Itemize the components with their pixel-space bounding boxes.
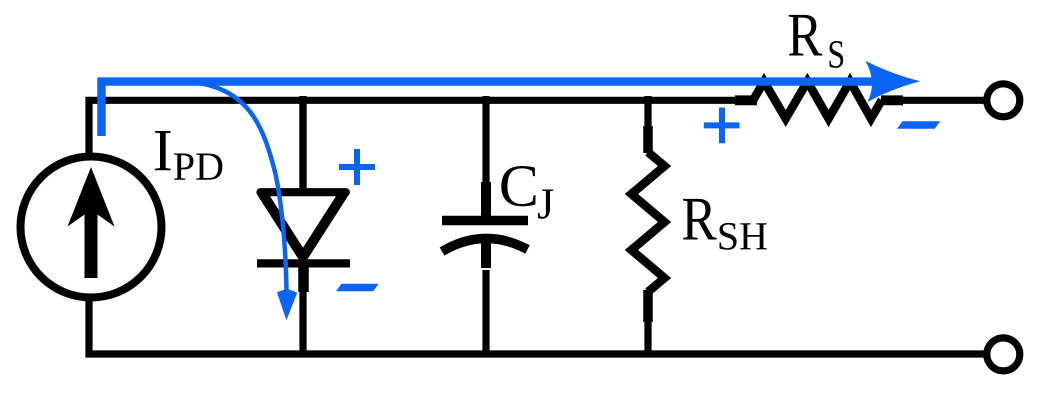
label R_SH xyxy=(683,199,767,250)
capacitor lead stub bottom xyxy=(481,243,491,268)
resistor R_SH zigzag xyxy=(631,152,664,292)
terminal top xyxy=(987,84,1020,117)
resistor R_S lead stub right xyxy=(881,95,903,105)
resistor R_SH lead stub top xyxy=(643,126,653,153)
blue minus at diode cathode xyxy=(336,284,379,292)
blue curved branch through diode xyxy=(185,82,287,292)
capacitor C_J top plate xyxy=(442,216,528,226)
blue current arrowhead right xyxy=(865,61,920,102)
diode cathode bar xyxy=(257,259,350,267)
capacitor C_J bottom curved plate xyxy=(442,238,528,251)
resistor R_S lead stub left xyxy=(735,95,757,105)
wire top rail with left corner down to current source xyxy=(89,100,753,156)
wire diode branch top xyxy=(299,96,306,190)
wire R_SH branch top xyxy=(644,96,651,130)
label I_PD xyxy=(155,131,222,180)
blue plus left of R_S xyxy=(704,108,740,144)
wire bottom rail with left corner up to current source xyxy=(89,298,986,354)
resistor R_SH lead stub bottom xyxy=(643,290,653,322)
resistor R_S zigzag xyxy=(753,82,882,119)
current source arrow xyxy=(68,167,115,278)
wire diode branch bottom xyxy=(299,262,306,354)
wire capacitor branch bottom xyxy=(482,270,489,354)
capacitor lead stub top xyxy=(481,182,491,216)
wire R_SH branch bottom xyxy=(644,318,651,354)
blue down arrowhead at diode xyxy=(277,289,297,321)
wire capacitor branch top xyxy=(482,96,489,216)
wire to top terminal xyxy=(900,97,986,104)
blue minus right of R_S xyxy=(897,121,940,129)
diode D triangle slant sides xyxy=(263,195,343,258)
blue plus at diode anode xyxy=(339,149,375,185)
label C_J xyxy=(501,166,553,219)
blue current path main line xyxy=(102,82,881,136)
label R_S xyxy=(789,15,843,68)
current source I_PD circle xyxy=(21,157,162,298)
diode D triangle top bar xyxy=(261,188,346,196)
terminal bottom xyxy=(987,338,1020,371)
diode cathode lead stub xyxy=(298,264,309,292)
